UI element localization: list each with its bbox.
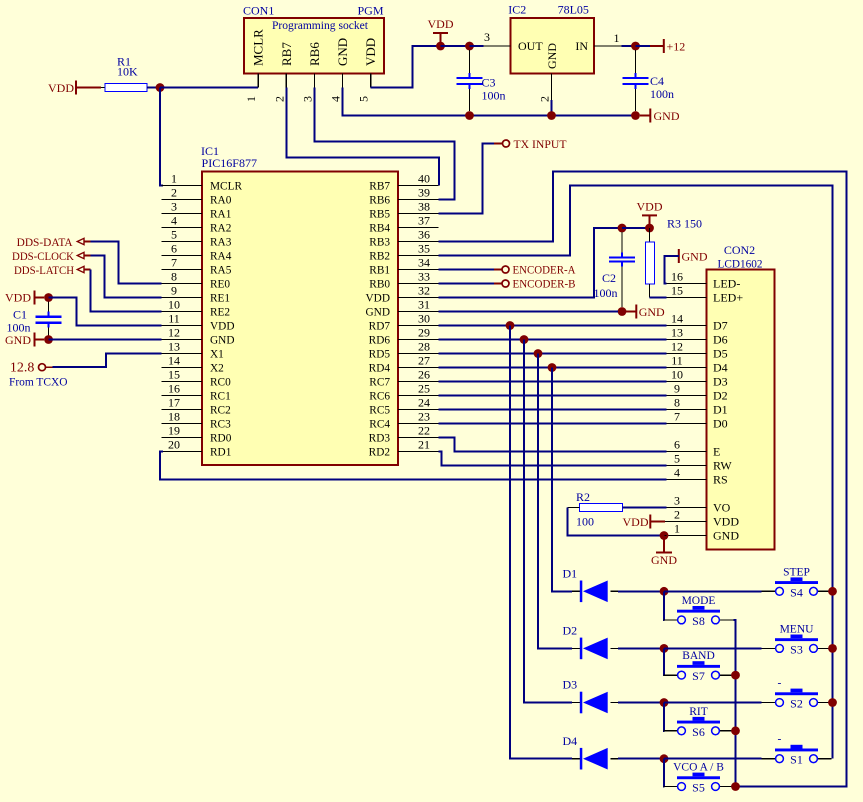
- svg-text:DDS-DATA: DDS-DATA: [17, 235, 73, 249]
- IC1 pin 24 RC5: [398, 409, 439, 411]
- switch S4 STEP: [762, 590, 776, 592]
- port GND (top rail): [640, 115, 650, 117]
- CON2 pin 16 LED-: [667, 283, 707, 285]
- wire data bus D0 row: [439, 423, 667, 425]
- switch S3 MENU: [762, 647, 776, 649]
- svg-text:39: 39: [418, 185, 430, 199]
- node junction VDD/C1: [44, 293, 53, 302]
- svg-text:RA1: RA1: [210, 209, 231, 221]
- svg-text:36: 36: [418, 227, 430, 241]
- node junction IC2 GND rail: [547, 111, 556, 120]
- wire D2 node to S3 and S7: [664, 647, 762, 649]
- svg-text:D2: D2: [713, 389, 728, 403]
- IC1 pin 31 GND: [398, 311, 439, 313]
- CON2 pin 9 D2: [667, 395, 707, 397]
- IC1 pin 18 RC3: [162, 423, 203, 425]
- wire data bus D3 row: [439, 381, 667, 383]
- resistor R2: [580, 504, 623, 512]
- svg-text:GND: GND: [654, 109, 680, 123]
- wire: [160, 87, 258, 89]
- svg-text:30: 30: [418, 311, 430, 325]
- switch S5 VCO A / B: [664, 786, 678, 788]
- capacitor C1: [48, 302, 50, 313]
- svg-text:VDD: VDD: [210, 321, 234, 333]
- port +12: [636, 45, 651, 47]
- svg-text:37: 37: [418, 213, 430, 227]
- node junction S3 bus: [828, 644, 837, 653]
- svg-text:20: 20: [168, 437, 180, 451]
- svg-text:29: 29: [418, 325, 430, 339]
- wire D5 tap down to diode D2: [538, 354, 572, 649]
- wire data bus D7 row: [439, 325, 667, 327]
- svg-text:100n: 100n: [650, 87, 674, 101]
- CON2 pin 3 VO: [667, 507, 707, 509]
- CON2 pin 11 D4: [667, 367, 707, 369]
- svg-text:D4: D4: [713, 361, 728, 375]
- IC1 pin 12 GND: [162, 339, 203, 341]
- CON1 pin 3 RB6: [313, 73, 315, 87]
- wire diode anode to node: [618, 590, 664, 592]
- svg-text:VCO A / B: VCO A / B: [673, 762, 724, 774]
- wire data bus D1 row: [439, 409, 667, 411]
- wire IC1 pin22 RD3 to LCD E: [439, 438, 667, 452]
- svg-text:RD6: RD6: [369, 335, 391, 347]
- IC1 pin 13 X1: [162, 353, 203, 355]
- svg-text:VDD: VDD: [363, 38, 378, 66]
- wire DDS-DATA to IC1 pin8 RE0: [91, 242, 162, 284]
- svg-text:E: E: [713, 445, 720, 459]
- wire CON1 pin4 GND to ground rail: [343, 88, 470, 116]
- port GND (LCD pin16 LED-): [678, 249, 680, 263]
- svg-text:RB5: RB5: [369, 209, 390, 221]
- wire: [733, 786, 735, 788]
- svg-text:GND: GND: [639, 305, 665, 319]
- wire R2 right to LCD VO: [623, 507, 667, 509]
- svg-text:RB4: RB4: [369, 223, 390, 235]
- port ENCODER-A: [502, 266, 509, 273]
- svg-text:18: 18: [168, 409, 180, 423]
- wire: [439, 269, 495, 271]
- IC1 pin 5 RA3: [162, 241, 203, 243]
- svg-text:RB7: RB7: [369, 181, 390, 193]
- svg-text:LED-: LED-: [713, 277, 740, 291]
- CON2 pin 2 VDD: [667, 521, 707, 523]
- IC1 pin 15 RC0: [162, 381, 203, 383]
- svg-text:X2: X2: [210, 363, 224, 375]
- svg-text:GND: GND: [366, 307, 390, 319]
- resistor R3 (vertical): [649, 228, 651, 242]
- CON1 pin 5 VDD: [370, 73, 372, 87]
- IC1 pin 37 RB4: [398, 227, 439, 229]
- node junction D4 tap: [548, 363, 557, 372]
- power VDD symbol (top): [433, 32, 448, 34]
- svg-text:MENU: MENU: [780, 623, 815, 635]
- diode D3: [572, 702, 580, 704]
- svg-text:22: 22: [418, 423, 430, 437]
- svg-text:-: -: [778, 734, 782, 746]
- svg-text:12: 12: [671, 339, 683, 353]
- node junction C2 top: [618, 224, 627, 233]
- svg-text:ENCODER-B: ENCODER-B: [513, 277, 576, 291]
- svg-text:3: 3: [300, 96, 314, 102]
- IC1 pin 1 MCLR: [162, 185, 203, 187]
- wire data bus D5 row: [439, 353, 667, 355]
- wire IC1 pin36 RB3 to keys column S5-S8: [439, 172, 847, 787]
- IC1 pin 40 RB7: [398, 185, 439, 187]
- svg-text:C4: C4: [650, 74, 664, 88]
- svg-text:X1: X1: [210, 349, 224, 361]
- node junction R3 top: [645, 224, 654, 233]
- wire: [733, 674, 735, 676]
- svg-text:D6: D6: [713, 333, 728, 347]
- IC1 pin 38 RB5: [398, 213, 439, 215]
- svg-text:3: 3: [171, 199, 177, 213]
- svg-text:34: 34: [418, 255, 430, 269]
- IC1 pin 32 VDD: [398, 297, 439, 299]
- IC1 pin 27 RD4: [398, 367, 439, 369]
- IC1 pin 19 RD0: [162, 437, 203, 439]
- svg-text:PGM: PGM: [357, 4, 383, 18]
- svg-text:100n: 100n: [594, 286, 618, 300]
- wire: [733, 730, 735, 732]
- IC2 pin 2 GND: [551, 73, 553, 100]
- svg-text:D1: D1: [713, 403, 728, 417]
- CON2 pin 7 D0: [667, 423, 707, 425]
- wire right keys bus: [832, 591, 834, 758]
- IC1 pin 16 RC1: [162, 395, 203, 397]
- diode D4: [572, 758, 580, 760]
- IC1 pin 33 RB0: [398, 283, 439, 285]
- wire R3 bottom to LCD LED+: [650, 297, 667, 299]
- CON2 pin 10 D3: [667, 381, 707, 383]
- wire IC1 pin32 VDD to R3/C2 node: [439, 228, 623, 298]
- svg-text:VDD: VDD: [48, 81, 74, 95]
- node junction D3 anode: [660, 698, 669, 707]
- svg-text:6: 6: [674, 437, 680, 451]
- svg-text:5: 5: [171, 227, 177, 241]
- IC1 pin 7 RA5: [162, 269, 203, 271]
- svg-text:RD2: RD2: [369, 447, 391, 459]
- CON2 pin 6 E: [667, 451, 707, 453]
- wire 12.8 to IC1 pin13 X1: [52, 354, 161, 368]
- svg-text:38: 38: [418, 199, 430, 213]
- IC1 pin 4 RA2: [162, 227, 203, 229]
- svg-text:RA5: RA5: [210, 265, 232, 277]
- svg-text:TX INPUT: TX INPUT: [514, 137, 568, 151]
- svg-text:26: 26: [418, 367, 430, 381]
- IC1 pin 36 RB3: [398, 241, 439, 243]
- wire D1 node to S4 and S8: [664, 590, 762, 592]
- svg-text:24: 24: [418, 395, 430, 409]
- svg-text:LED+: LED+: [713, 291, 743, 305]
- svg-text:4: 4: [674, 465, 680, 479]
- node junction S6 bus: [731, 726, 740, 735]
- CON1 pin 2 RB7: [285, 73, 287, 87]
- svg-text:GND: GND: [545, 43, 559, 69]
- wire D4 node to S1 and S5: [664, 758, 762, 760]
- svg-text:VDD: VDD: [637, 199, 663, 213]
- IC1 pin 35 RB2: [398, 255, 439, 257]
- node junction D4 anode: [660, 754, 669, 763]
- svg-text:1: 1: [614, 31, 620, 45]
- wire CON1 pin2 RB7 to IC1 pin40: [286, 88, 439, 186]
- port TX INPUT: [503, 140, 510, 147]
- port ENCODER-B: [502, 280, 509, 287]
- wire: [470, 45, 484, 47]
- svg-text:RD3: RD3: [369, 433, 391, 445]
- resistor R1: [105, 84, 147, 92]
- IC1 pin 29 RD6: [398, 339, 439, 341]
- svg-text:11: 11: [671, 353, 683, 367]
- wire IC1 pin38 RB5 to TX INPUT: [439, 144, 495, 214]
- svg-text:15: 15: [168, 367, 180, 381]
- svg-text:14: 14: [671, 311, 683, 325]
- svg-text:RB2: RB2: [369, 251, 390, 263]
- IC1 pin 8 RE0: [162, 283, 203, 285]
- wire GND to LCD pin16: [665, 256, 679, 284]
- svg-text:GND: GND: [682, 250, 708, 264]
- svg-text:7: 7: [171, 255, 177, 269]
- svg-text:R3 150: R3 150: [667, 217, 702, 231]
- wire data bus D2 row: [439, 395, 667, 397]
- svg-text:9: 9: [674, 381, 680, 395]
- wire IC1 pin21 RD2 to LCD RW: [439, 452, 667, 466]
- IC1 pin 9 RE1: [162, 297, 203, 299]
- wire middle keys bus: [733, 620, 735, 787]
- svg-text:D0: D0: [713, 417, 728, 431]
- wire ground rail: [470, 115, 636, 117]
- wire IC1 pin20 RD1 to LCD RS: [160, 452, 667, 480]
- svg-text:From TCXO: From TCXO: [9, 375, 68, 389]
- port GND (C2): [626, 311, 636, 313]
- node junction IC2 IN / C4: [631, 42, 640, 51]
- IC IC1 PIC16F877: [202, 172, 398, 466]
- switch S6 RIT: [664, 730, 678, 732]
- svg-text:RD5: RD5: [369, 349, 391, 361]
- svg-text:DDS-CLOCK: DDS-CLOCK: [12, 249, 74, 263]
- svg-text:RA2: RA2: [210, 223, 232, 235]
- svg-text:RE0: RE0: [210, 279, 230, 291]
- svg-text:S1: S1: [790, 753, 803, 767]
- wire data bus D4 row: [439, 367, 667, 369]
- CON2 pin 5 RW: [667, 465, 707, 467]
- switch S1 -: [762, 758, 776, 760]
- svg-text:RC4: RC4: [369, 419, 390, 431]
- svg-text:-: -: [778, 678, 782, 690]
- svg-text:VDD: VDD: [366, 293, 390, 305]
- capacitor C2: [621, 232, 623, 253]
- svg-text:D3: D3: [563, 678, 578, 692]
- svg-text:RE2: RE2: [210, 307, 230, 319]
- IC1 pin 22 RD3: [398, 437, 439, 439]
- svg-text:D2: D2: [563, 624, 578, 638]
- svg-text:RB6: RB6: [307, 42, 322, 66]
- svg-text:2: 2: [171, 185, 177, 199]
- svg-text:RB0: RB0: [369, 279, 390, 291]
- node junction D5 tap: [534, 349, 543, 358]
- node junction GND/C1: [44, 335, 53, 344]
- svg-text:23: 23: [418, 409, 430, 423]
- svg-text:RIT: RIT: [689, 706, 708, 718]
- IC1 pin 3 RA1: [162, 213, 203, 215]
- wire R2 left to LCD GND pin1: [568, 508, 660, 536]
- power GND symbol (LCD pin1): [663, 536, 665, 553]
- svg-text:STEP: STEP: [783, 566, 810, 578]
- diode D2: [572, 647, 580, 649]
- svg-text:DDS-LATCH: DDS-LATCH: [14, 263, 74, 277]
- svg-text:12: 12: [168, 325, 180, 339]
- svg-text:13: 13: [671, 325, 683, 339]
- IC1 pin 34 RB1: [398, 269, 439, 271]
- svg-text:RA3: RA3: [210, 237, 232, 249]
- diode D1: [572, 590, 580, 592]
- regulator IC2 78L05: [511, 18, 595, 73]
- svg-text:+12: +12: [667, 40, 686, 54]
- svg-text:D3: D3: [713, 375, 728, 389]
- node junction D7 tap: [506, 321, 515, 330]
- svg-text:19: 19: [168, 423, 180, 437]
- node junction R1/CON1/IC1: [156, 83, 165, 92]
- CON1 pin 1 MCLR: [257, 73, 259, 87]
- svg-text:10K: 10K: [117, 65, 138, 79]
- wire diode anode to node: [618, 702, 664, 704]
- node junction C3 top: [465, 42, 474, 51]
- svg-text:14: 14: [168, 353, 180, 367]
- IC1 pin 21 RD2: [398, 451, 439, 453]
- svg-text:RW: RW: [713, 459, 732, 473]
- switch S2 -: [762, 702, 776, 704]
- svg-text:10: 10: [671, 367, 683, 381]
- svg-text:RC6: RC6: [369, 391, 390, 403]
- svg-text:D1: D1: [563, 567, 578, 581]
- svg-text:C3: C3: [482, 76, 496, 90]
- svg-text:RD1: RD1: [210, 447, 231, 459]
- wire: [101, 87, 105, 89]
- svg-text:RD4: RD4: [369, 363, 391, 375]
- wire IC1 pin31 GND to C2 bottom: [439, 311, 618, 313]
- svg-text:C1: C1: [13, 307, 27, 321]
- svg-text:7: 7: [674, 409, 680, 423]
- svg-text:3: 3: [674, 493, 680, 507]
- svg-text:32: 32: [418, 283, 430, 297]
- svg-text:16: 16: [168, 381, 180, 395]
- node junction C2 bottom: [618, 307, 627, 316]
- svg-text:2: 2: [538, 96, 552, 102]
- svg-text:9: 9: [171, 283, 177, 297]
- svg-text:S6: S6: [692, 725, 705, 739]
- svg-text:RA4: RA4: [210, 251, 232, 263]
- CON1 pin 4 GND: [342, 73, 344, 87]
- node junction D6 tap: [520, 335, 529, 344]
- power VDD symbol (R3): [642, 214, 657, 216]
- IC1 pin 10 RE2: [162, 311, 203, 313]
- svg-text:LCD1602: LCD1602: [718, 257, 763, 271]
- node junction S7 bus: [731, 671, 740, 680]
- svg-text:13: 13: [168, 339, 180, 353]
- IC1 pin 17 RC2: [162, 409, 203, 411]
- svg-text:S2: S2: [790, 697, 803, 711]
- svg-text:S4: S4: [790, 585, 803, 599]
- svg-text:5: 5: [674, 451, 680, 465]
- svg-text:S3: S3: [790, 642, 803, 656]
- CON2 pin 12 D5: [667, 353, 707, 355]
- svg-text:100: 100: [576, 515, 594, 529]
- IC1 pin 11 VDD: [162, 325, 203, 327]
- svg-text:MCLR: MCLR: [251, 29, 266, 66]
- wire: [147, 87, 160, 89]
- svg-text:GND: GND: [5, 333, 31, 347]
- IC1 pin 39 RB6: [398, 199, 439, 201]
- svg-text:16: 16: [671, 269, 683, 283]
- IC1 pin 23 RC4: [398, 423, 439, 425]
- node junction S2 bus: [828, 698, 837, 707]
- svg-text:CON2: CON2: [724, 243, 755, 257]
- svg-text:ENCODER-A: ENCODER-A: [513, 263, 576, 277]
- svg-text:27: 27: [418, 353, 430, 367]
- switch S7 BAND: [664, 674, 678, 676]
- svg-text:RC2: RC2: [210, 405, 231, 417]
- node junction D1 anode: [660, 587, 669, 596]
- wire D6 tap down to diode D3: [524, 340, 572, 703]
- svg-text:RC5: RC5: [369, 405, 390, 417]
- svg-text:RD0: RD0: [210, 433, 232, 445]
- svg-text:4: 4: [171, 213, 177, 227]
- svg-text:PIC16F877: PIC16F877: [202, 156, 258, 170]
- node junction VDD top: [436, 42, 445, 51]
- svg-text:6: 6: [171, 241, 177, 255]
- svg-text:CON1: CON1: [243, 4, 274, 18]
- svg-text:D5: D5: [713, 347, 728, 361]
- wire DDS-LATCH to IC1 pin10 RE2: [91, 270, 162, 312]
- svg-text:RC0: RC0: [210, 377, 231, 389]
- svg-text:1: 1: [171, 171, 177, 185]
- svg-text:MODE: MODE: [682, 595, 716, 607]
- switch S8 MODE: [664, 619, 678, 621]
- wire: [439, 283, 495, 285]
- CON2 pin 1 GND: [667, 535, 707, 537]
- svg-text:12.8: 12.8: [10, 361, 35, 376]
- svg-text:GND: GND: [210, 335, 234, 347]
- IC1 pin 2 RA0: [162, 199, 203, 201]
- wire CON1 pin3 RB6 to IC1 pin39: [314, 88, 454, 200]
- svg-text:GND: GND: [651, 553, 677, 567]
- connector CON2 LCD1602: [707, 270, 775, 550]
- wire: [160, 88, 163, 186]
- wire GND to IC1 pin12: [49, 339, 162, 341]
- svg-text:15: 15: [671, 283, 683, 297]
- CON2 pin 14 D7: [667, 325, 707, 327]
- wire: [622, 45, 636, 47]
- capacitor C3: [469, 50, 471, 74]
- svg-text:2: 2: [674, 507, 680, 521]
- svg-text:8: 8: [171, 269, 177, 283]
- wire CON1 pin5 VDD up to +5V node: [371, 46, 441, 88]
- svg-text:R2: R2: [576, 490, 590, 504]
- svg-text:11: 11: [168, 311, 180, 325]
- svg-text:VDD: VDD: [713, 515, 739, 529]
- svg-text:2: 2: [272, 96, 286, 102]
- node junction C4 bottom: [631, 111, 640, 120]
- svg-text:RB7: RB7: [279, 42, 294, 66]
- svg-text:21: 21: [418, 437, 430, 451]
- svg-text:C2: C2: [602, 271, 616, 285]
- svg-text:RC1: RC1: [210, 391, 231, 403]
- node junction S5 bus: [731, 782, 740, 791]
- svg-text:Programming socket: Programming socket: [272, 18, 369, 32]
- svg-text:5: 5: [357, 96, 371, 102]
- svg-text:RC3: RC3: [210, 419, 231, 431]
- svg-text:MCLR: MCLR: [210, 181, 242, 193]
